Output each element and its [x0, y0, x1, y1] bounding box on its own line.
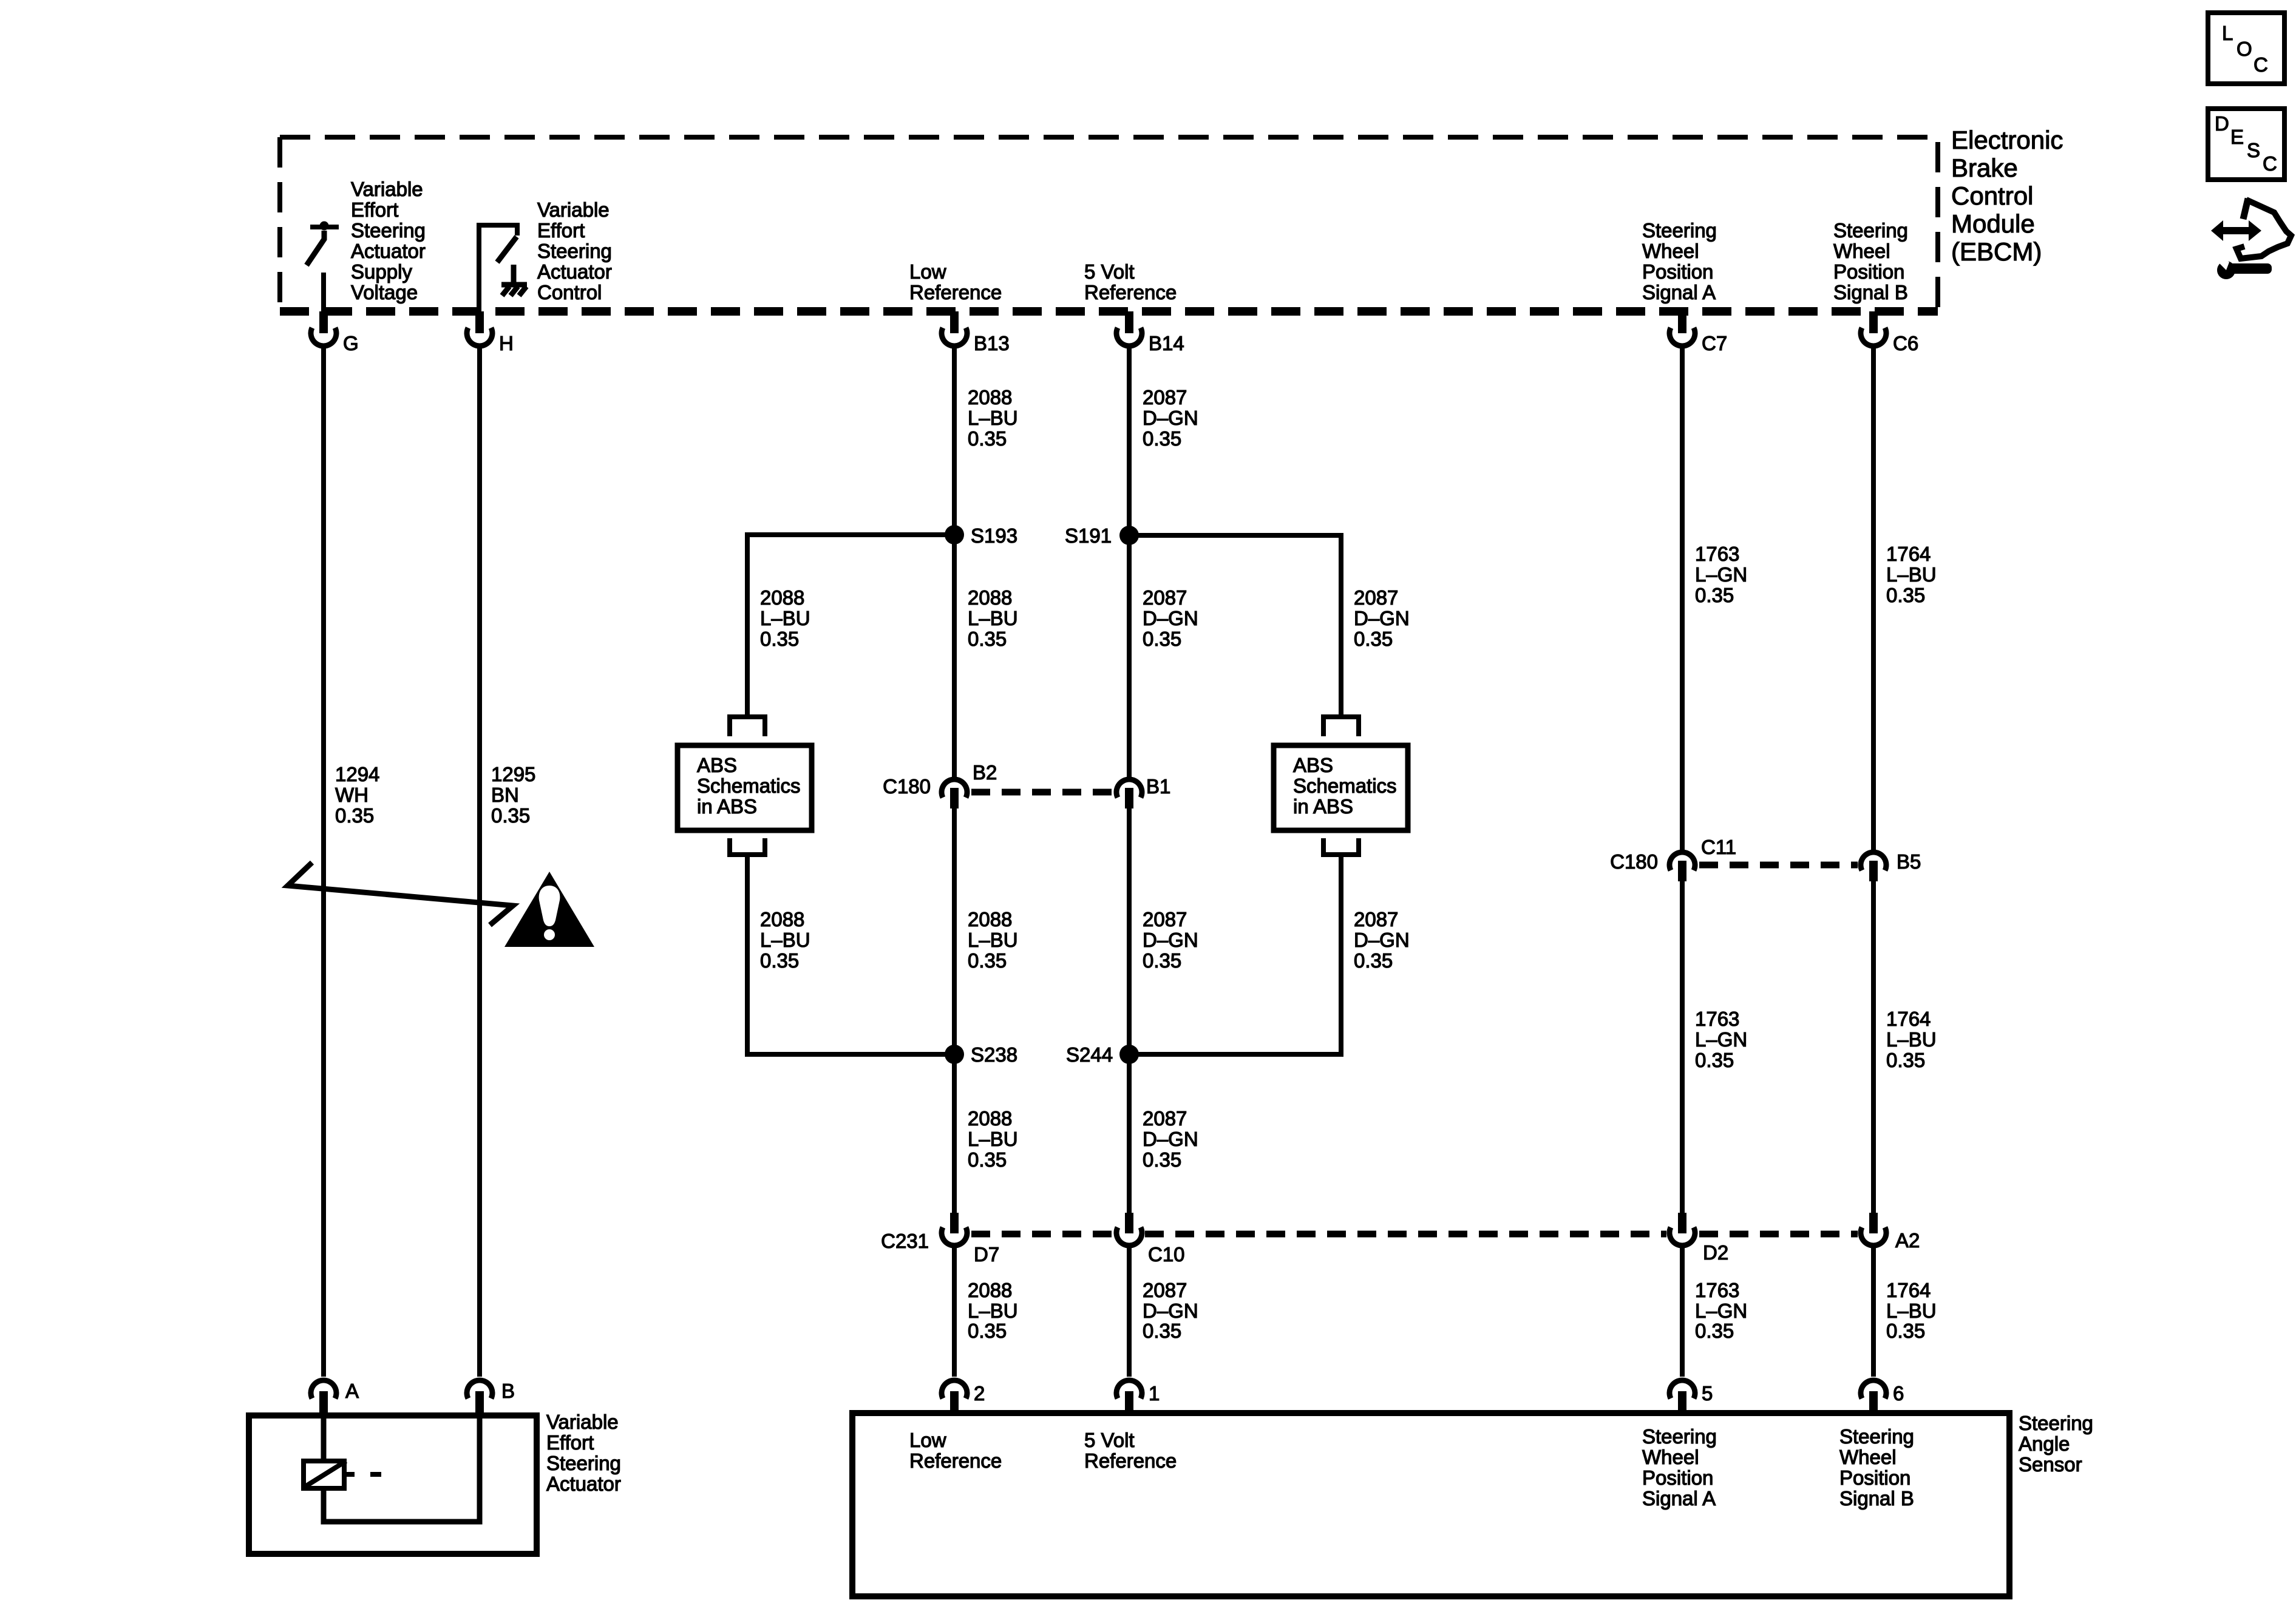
- svg-text:1764: 1764: [1886, 1008, 1931, 1030]
- svg-text:S191: S191: [1065, 524, 1112, 547]
- svg-text:0.35: 0.35: [760, 628, 799, 650]
- svg-text:S244: S244: [1066, 1043, 1113, 1066]
- svg-text:Schematics: Schematics: [697, 775, 801, 797]
- svg-text:0.35: 0.35: [1354, 949, 1393, 972]
- svg-text:D–GN: D–GN: [1143, 1300, 1198, 1322]
- svg-text:C: C: [2263, 152, 2277, 175]
- bracket above right ABS Schematics box: [1323, 717, 1359, 736]
- in-line connector C180 pin B2: [942, 779, 967, 808]
- svg-text:in ABS: in ABS: [1293, 795, 1353, 818]
- svg-text:0.35: 0.35: [1695, 1320, 1734, 1342]
- svg-text:0.35: 0.35: [968, 1320, 1007, 1342]
- in-line connector C180 pin B5: [1861, 852, 1886, 881]
- label: Variable Effort Steering Actuator (component name): [546, 1411, 621, 1495]
- svg-text:B: B: [501, 1380, 515, 1402]
- wire label 2088 L-BU 0.35 row3 left branch: [760, 908, 810, 972]
- label: Electronic Brake Control Module (EBCM): [1951, 126, 2063, 266]
- svg-text:D–GN: D–GN: [1354, 929, 1410, 951]
- svg-text:Steering: Steering: [1642, 219, 1717, 242]
- svg-text:Wheel: Wheel: [1642, 240, 1699, 262]
- svg-text:D: D: [2215, 112, 2229, 135]
- svg-text:Module: Module: [1951, 209, 2035, 238]
- wire label 1294 WH 0.35: [335, 763, 379, 827]
- in-line connector C231 pin A2: [1861, 1213, 1886, 1246]
- svg-text:2088: 2088: [760, 908, 804, 931]
- svg-text:5 Volt: 5 Volt: [1084, 260, 1135, 283]
- svg-text:L–BU: L–BU: [968, 607, 1018, 629]
- connector pin G at EBCM: [311, 311, 336, 346]
- LOC icon box: [2208, 13, 2284, 84]
- svg-text:L–BU: L–BU: [760, 929, 810, 951]
- svg-text:Angle: Angle: [2019, 1432, 2070, 1455]
- svg-text:2088: 2088: [968, 1279, 1012, 1301]
- svg-text:D–GN: D–GN: [1143, 407, 1198, 429]
- Steering Angle Sensor box: [852, 1413, 2009, 1596]
- svg-text:Signal A: Signal A: [1642, 1487, 1716, 1510]
- svg-text:0.35: 0.35: [1695, 1049, 1734, 1071]
- svg-text:(EBCM): (EBCM): [1951, 237, 2042, 266]
- connector pin A at actuator: [311, 1380, 336, 1415]
- svg-text:0.35: 0.35: [1143, 427, 1181, 450]
- svg-text:ABS: ABS: [1293, 754, 1333, 776]
- wire label 2087 D-GN 0.35 row5 B14: [1143, 1279, 1198, 1342]
- svg-text:S: S: [2247, 139, 2260, 161]
- svg-text:Position: Position: [1839, 1466, 1911, 1489]
- wire label 1764 L-BU 0.35 row1 C6: [1886, 543, 1937, 606]
- svg-text:E: E: [2230, 126, 2244, 148]
- svg-text:Effort: Effort: [537, 219, 585, 242]
- svg-text:L–GN: L–GN: [1695, 563, 1747, 586]
- svg-text:D2: D2: [1703, 1241, 1728, 1264]
- wire C7: circuit 1763 Signal A vertical: [1680, 346, 1685, 850]
- label: 5 Volt Reference (EBCM pin B14): [1084, 260, 1177, 303]
- wire label 2088 L-BU 0.35 row5 B13: [968, 1279, 1018, 1342]
- wire label 1764 L-BU 0.35 row2 C6: [1886, 1008, 1937, 1071]
- in-line connector C180 pin C11: [1669, 852, 1695, 881]
- svg-text:1763: 1763: [1695, 1008, 1739, 1030]
- svg-text:Wheel: Wheel: [1642, 1446, 1699, 1468]
- wire: left ABS branch lower run to splice S238: [747, 855, 954, 1054]
- DESC icon box: [2208, 109, 2284, 180]
- svg-text:H: H: [499, 332, 514, 354]
- svg-text:D–GN: D–GN: [1143, 929, 1198, 951]
- in-line connector C231 pin D7: [942, 1213, 967, 1246]
- svg-text:A2: A2: [1895, 1229, 1920, 1252]
- connector pin B at actuator: [467, 1380, 492, 1415]
- splice S238: [945, 1045, 964, 1064]
- bracket above left ABS Schematics box: [730, 717, 765, 736]
- svg-text:Steering: Steering: [1839, 1425, 1914, 1448]
- connector pin B13 at EBCM: [942, 311, 967, 346]
- label: ABS Schematics in ABS (right): [1293, 754, 1397, 818]
- svg-text:2087: 2087: [1143, 586, 1187, 609]
- caution arrow pointing at wires 1294/1295: [288, 863, 513, 925]
- svg-text:B14: B14: [1149, 332, 1184, 354]
- label: Low Reference (sensor pin 2): [909, 1429, 1002, 1472]
- svg-text:Reference: Reference: [909, 281, 1002, 303]
- svg-text:Low: Low: [909, 260, 946, 283]
- in-line connector C180 pin B1: [1116, 779, 1142, 808]
- svg-text:L–BU: L–BU: [968, 407, 1018, 429]
- wire label 1763 L-GN 0.35 row3 C7: [1695, 1279, 1747, 1342]
- svg-text:0.35: 0.35: [491, 804, 530, 827]
- wire label 2087 D-GN 0.35 row4 B14: [1143, 1107, 1198, 1171]
- svg-text:0.35: 0.35: [760, 949, 799, 972]
- wire label 1763 L-GN 0.35 row1 C7: [1695, 543, 1747, 606]
- svg-text:1764: 1764: [1886, 543, 1931, 565]
- svg-text:0.35: 0.35: [1886, 1049, 1925, 1071]
- wire C6: circuit 1764 Signal B vertical: [1871, 346, 1876, 850]
- svg-text:Control: Control: [1951, 181, 2033, 210]
- svg-text:Reference: Reference: [1084, 281, 1177, 303]
- svg-text:2087: 2087: [1143, 908, 1187, 931]
- svg-text:0.35: 0.35: [1886, 584, 1925, 606]
- solenoid symbol inside actuator: [302, 1461, 381, 1488]
- wire label 2087 D-GN 0.35 row3 B14: [1143, 908, 1198, 972]
- svg-text:Signal B: Signal B: [1839, 1487, 1914, 1510]
- svg-text:2088: 2088: [968, 586, 1012, 609]
- svg-text:2087: 2087: [1143, 386, 1187, 408]
- svg-text:L–GN: L–GN: [1695, 1028, 1747, 1051]
- label: Steering Wheel Position Signal B (EBCM pin C6): [1833, 219, 1908, 303]
- wire label 2088 L-BU 0.35 row2 left branch: [760, 586, 810, 650]
- svg-text:L–BU: L–BU: [1886, 563, 1937, 586]
- svg-text:1763: 1763: [1695, 543, 1739, 565]
- svg-text:Variable: Variable: [351, 178, 423, 200]
- in-line connector C231 pin D2: [1669, 1213, 1695, 1246]
- connector pin H at EBCM: [467, 311, 492, 346]
- svg-text:1763: 1763: [1695, 1279, 1739, 1301]
- svg-text:2: 2: [974, 1382, 985, 1405]
- svg-text:L–BU: L–BU: [760, 607, 810, 629]
- svg-text:C: C: [2254, 53, 2268, 76]
- svg-text:Position: Position: [1642, 260, 1713, 283]
- svg-text:Reference: Reference: [1084, 1449, 1177, 1472]
- svg-text:2087: 2087: [1143, 1279, 1187, 1301]
- svg-text:C180: C180: [1610, 850, 1658, 873]
- svg-text:A: A: [345, 1380, 359, 1402]
- label: Variable Effort Steering Actuator Supply Voltage: [351, 178, 426, 303]
- wire label 2087 D-GN 0.35 row2 B14: [1143, 586, 1198, 650]
- svg-text:D–GN: D–GN: [1143, 1128, 1198, 1150]
- svg-text:WH: WH: [335, 784, 369, 806]
- svg-text:C10: C10: [1148, 1243, 1185, 1266]
- svg-text:Steering: Steering: [2019, 1412, 2093, 1434]
- svg-text:0.35: 0.35: [1143, 1148, 1181, 1171]
- svg-text:0.35: 0.35: [1143, 628, 1181, 650]
- warning triangle with exclamation: [504, 872, 594, 947]
- label: ABS Schematics in ABS (left): [697, 754, 801, 818]
- wire label 2087 D-GN 0.35 row2 right branch: [1354, 586, 1410, 650]
- svg-text:C180: C180: [883, 775, 931, 798]
- dashed line of connector C231: [971, 1231, 1113, 1238]
- svg-text:Actuator: Actuator: [351, 240, 426, 262]
- wire label 2088 L-BU 0.35 row2 B13: [968, 586, 1018, 650]
- label: Variable Effort Steering Actuator Control: [537, 198, 612, 303]
- svg-text:C11: C11: [1701, 836, 1736, 858]
- wire: left ABS branch from splice S193: [747, 535, 954, 717]
- dashed line between C11 and B5: [1699, 862, 1858, 869]
- svg-text:B1: B1: [1146, 775, 1170, 798]
- svg-text:Voltage: Voltage: [351, 281, 418, 303]
- splice S193: [945, 525, 964, 544]
- Variable Effort Steering Actuator box: [249, 1415, 537, 1554]
- svg-text:ABS: ABS: [697, 754, 737, 776]
- connector pin 5 at steering angle sensor: [1669, 1380, 1695, 1415]
- wire G: circuit 1294 from EBCM pin G to actuator pin A: [321, 346, 326, 1377]
- svg-text:Steering: Steering: [1833, 219, 1908, 242]
- svg-text:Actuator: Actuator: [537, 260, 612, 283]
- svg-text:Steering: Steering: [546, 1452, 621, 1474]
- bracket below left ABS Schematics box: [730, 838, 765, 855]
- svg-text:L: L: [2222, 22, 2233, 44]
- svg-text:Steering: Steering: [351, 219, 426, 242]
- switch contact for Variable Effort Steering Actuator Control (pin H): [479, 225, 517, 311]
- svg-text:Sensor: Sensor: [2019, 1453, 2082, 1476]
- svg-text:5 Volt: 5 Volt: [1084, 1429, 1135, 1451]
- dashed line between B2 and B1: [971, 789, 1113, 796]
- svg-text:D–GN: D–GN: [1143, 607, 1198, 629]
- svg-text:0.35: 0.35: [968, 949, 1007, 972]
- svg-text:Control: Control: [537, 281, 602, 303]
- svg-text:D–GN: D–GN: [1354, 607, 1410, 629]
- svg-text:Variable: Variable: [537, 198, 610, 221]
- svg-text:L–BU: L–BU: [968, 1300, 1018, 1322]
- svg-text:Effort: Effort: [351, 198, 398, 221]
- svg-text:2088: 2088: [968, 1107, 1012, 1130]
- svg-text:Signal A: Signal A: [1642, 281, 1716, 303]
- svg-text:Supply: Supply: [351, 260, 412, 283]
- left ABS Schematics box: [678, 745, 812, 830]
- svg-text:Reference: Reference: [909, 1449, 1002, 1472]
- connector pin 1 at steering angle sensor: [1116, 1380, 1142, 1415]
- svg-text:6: 6: [1893, 1382, 1904, 1405]
- svg-text:2088: 2088: [968, 908, 1012, 931]
- svg-text:Steering: Steering: [1642, 1425, 1717, 1448]
- svg-text:Actuator: Actuator: [546, 1473, 621, 1495]
- label: Steering Wheel Position Signal A (EBCM pin C7): [1642, 219, 1717, 303]
- svg-text:in ABS: in ABS: [697, 795, 757, 818]
- svg-text:0.35: 0.35: [1695, 584, 1734, 606]
- svg-text:Variable: Variable: [546, 1411, 619, 1433]
- wire label 2088 L-BU 0.35 row4 B13: [968, 1107, 1018, 1171]
- svg-text:Signal B: Signal B: [1833, 281, 1908, 303]
- svg-text:0.35: 0.35: [1143, 949, 1181, 972]
- connector pin C7 at EBCM: [1669, 311, 1695, 346]
- svg-text:0.35: 0.35: [1886, 1320, 1925, 1342]
- splice S244: [1119, 1045, 1139, 1064]
- svg-text:B2: B2: [973, 761, 997, 784]
- svg-text:1: 1: [1149, 1382, 1160, 1405]
- svg-text:2088: 2088: [968, 386, 1012, 408]
- svg-text:BN: BN: [491, 784, 519, 806]
- svg-text:5: 5: [1702, 1382, 1713, 1405]
- svg-text:2087: 2087: [1354, 586, 1398, 609]
- svg-text:Wheel: Wheel: [1833, 240, 1890, 262]
- svg-text:S193: S193: [971, 524, 1017, 547]
- label: Low Reference (EBCM pin B13): [909, 260, 1002, 303]
- svg-text:0.35: 0.35: [968, 427, 1007, 450]
- wire H: circuit 1295 from EBCM pin H to actuator pin B: [477, 346, 482, 1377]
- bracket below right ABS Schematics box: [1323, 838, 1359, 855]
- wire: right ABS branch lower run to splice S244: [1129, 855, 1341, 1054]
- svg-text:C7: C7: [1702, 332, 1727, 354]
- svg-text:O: O: [2237, 38, 2252, 60]
- svg-text:L–BU: L–BU: [1886, 1300, 1937, 1322]
- connector pin 2 at steering angle sensor: [942, 1380, 967, 1415]
- wire into right ABS bracket: [1339, 695, 1343, 717]
- svg-text:Wheel: Wheel: [1839, 1446, 1897, 1468]
- svg-text:2087: 2087: [1143, 1107, 1187, 1130]
- wire label 1764 L-BU 0.35 row3 C6: [1886, 1279, 1937, 1342]
- label: 5 Volt Reference (sensor pin 1): [1084, 1429, 1177, 1472]
- svg-text:C231: C231: [881, 1230, 929, 1252]
- wire label 2087 D-GN 0.35 row1 B14: [1143, 386, 1198, 450]
- connector pin C6 at EBCM: [1861, 311, 1886, 346]
- svg-text:Effort: Effort: [546, 1431, 594, 1454]
- wire label 1295 BN 0.35: [491, 763, 535, 827]
- wire: actuator internal loop pin A to solenoid to pin B: [324, 1418, 480, 1522]
- svg-text:B5: B5: [1897, 850, 1921, 873]
- svg-text:Steering: Steering: [537, 240, 612, 262]
- svg-text:0.35: 0.35: [968, 628, 1007, 650]
- connector pin B14 at EBCM: [1116, 311, 1142, 346]
- wire B13: circuit 2088 Low Reference vertical: [952, 346, 957, 777]
- electronic brake control module EBCM dashed box: [280, 137, 1938, 311]
- svg-text:Electronic: Electronic: [1951, 126, 2063, 154]
- svg-text:L–BU: L–BU: [968, 1128, 1018, 1150]
- svg-text:S238: S238: [971, 1043, 1017, 1066]
- right ABS Schematics box: [1274, 745, 1408, 830]
- wire label 2087 D-GN 0.35 row3 right branch: [1354, 908, 1410, 972]
- label: Steering Wheel Position Signal A (sensor pin 5): [1642, 1425, 1717, 1510]
- svg-text:L–BU: L–BU: [968, 929, 1018, 951]
- svg-text:C6: C6: [1893, 332, 1918, 354]
- wire label 2088 L-BU 0.35 row3 B13: [968, 908, 1018, 972]
- in-line connector C231 pin C10: [1116, 1213, 1142, 1246]
- wire: right ABS branch from splice S191: [1129, 535, 1341, 717]
- svg-text:Brake: Brake: [1951, 154, 2018, 182]
- svg-text:0.35: 0.35: [335, 804, 374, 827]
- svg-text:0.35: 0.35: [1354, 628, 1393, 650]
- wire B14: circuit 2087 5 Volt Reference vertical: [1127, 346, 1132, 777]
- svg-text:0.35: 0.35: [968, 1148, 1007, 1171]
- label: Steering Angle Sensor (component name): [2019, 1412, 2093, 1476]
- svg-text:1764: 1764: [1886, 1279, 1931, 1301]
- svg-text:Position: Position: [1642, 1466, 1713, 1489]
- svg-text:1294: 1294: [335, 763, 379, 785]
- svg-text:1295: 1295: [491, 763, 535, 785]
- service/steering icon with double arrow and wrench: [2211, 198, 2291, 279]
- svg-text:L–BU: L–BU: [1886, 1028, 1937, 1051]
- chassis ground symbol inside EBCM: [501, 265, 527, 296]
- wire label 2088 L-BU 0.35 row1 B13: [968, 386, 1018, 450]
- svg-text:2088: 2088: [760, 586, 804, 609]
- svg-text:Low: Low: [909, 1429, 946, 1451]
- svg-text:Position: Position: [1833, 260, 1904, 283]
- connector pin 6 at steering angle sensor: [1861, 1380, 1886, 1415]
- svg-text:L–GN: L–GN: [1695, 1300, 1747, 1322]
- svg-text:D7: D7: [974, 1243, 999, 1266]
- wire into left ABS bracket: [745, 695, 750, 717]
- svg-text:2087: 2087: [1354, 908, 1398, 931]
- label: Steering Wheel Position Signal B (sensor pin 6): [1839, 1425, 1914, 1510]
- svg-text:G: G: [343, 332, 359, 354]
- svg-text:B13: B13: [974, 332, 1010, 354]
- svg-text:Schematics: Schematics: [1293, 775, 1397, 797]
- svg-text:0.35: 0.35: [1143, 1320, 1181, 1342]
- splice S191: [1119, 526, 1139, 545]
- switch contact for Variable Effort Steering Actuator Supply Voltage (pin G): [307, 222, 339, 312]
- wire label 1763 L-GN 0.35 row2 C7: [1695, 1008, 1747, 1071]
